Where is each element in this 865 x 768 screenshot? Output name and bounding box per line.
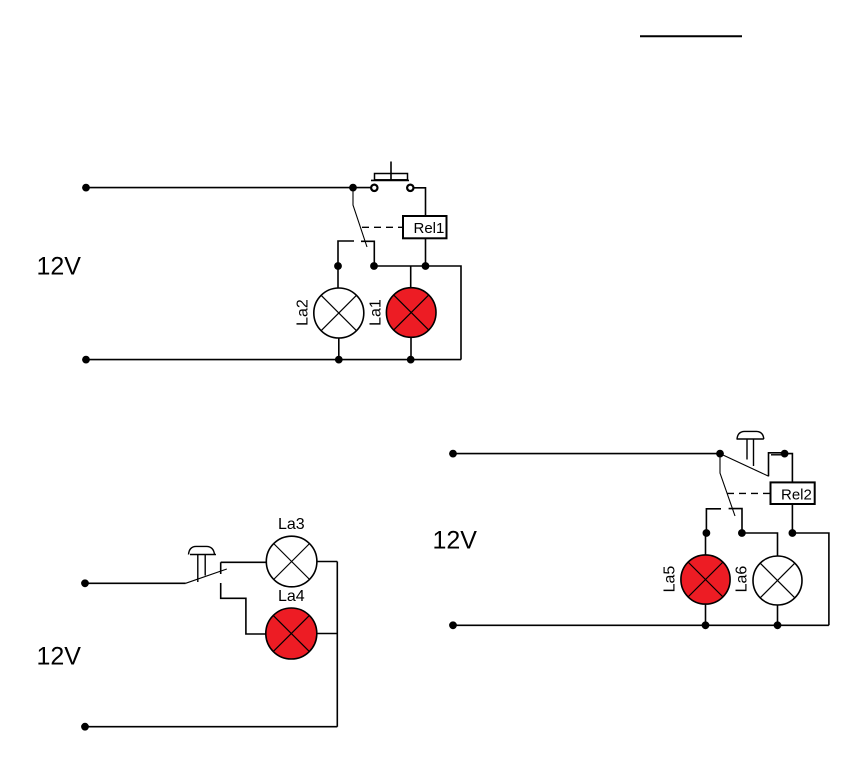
- pushbutton S2 mushroom cap: [189, 546, 217, 582]
- wire: node row to right side (circuit 1): [374, 266, 461, 360]
- wire: La5 bottom lead: [705, 604, 707, 625]
- switch arm (circuit 3): [720, 454, 769, 477]
- wire: right side down (circuit 2): [336, 562, 338, 727]
- wire: La5 top lead: [705, 533, 707, 555]
- wire: from S1 right contact down to Rel1: [414, 188, 426, 216]
- relay contact arm (circuit 1): [353, 189, 367, 247]
- node: left supply terminal dot bottom (circuit 3): [449, 621, 457, 629]
- relay contact arm (circuit 3): [720, 455, 735, 516]
- wire: to Rel2 top: [785, 454, 793, 483]
- wire: short line top right: [640, 35, 742, 37]
- wire: bottom supply rail (circuit 2): [85, 726, 337, 728]
- wire: La6 bottom lead: [777, 605, 779, 625]
- pushbutton S1 cap rectangle: [375, 174, 408, 180]
- junction at switch common (circuit 1): [349, 184, 357, 192]
- wire: staircase to La4: [221, 583, 266, 634]
- junction La5 bottom: [702, 621, 710, 629]
- wire: La3 right lead: [317, 561, 337, 563]
- svg-text:12V: 12V: [433, 527, 478, 555]
- wire: bottom supply rail (circuit 3): [453, 624, 829, 626]
- lamp La3 (white): [266, 536, 317, 587]
- contact: right throw lead (circuit 3): [729, 509, 742, 533]
- junction La2 bottom: [335, 356, 343, 364]
- svg-text:La6: La6: [734, 566, 751, 593]
- contact: right throw lead (circuit 1): [361, 241, 374, 266]
- wire: Rel1 bottom lead: [425, 238, 427, 266]
- lamp La5 (red): [681, 555, 730, 604]
- wire: top supply rail (circuit 3): [453, 453, 720, 455]
- relay coil Rel2 box: [771, 482, 815, 504]
- wire: La4 right lead: [317, 633, 338, 635]
- svg-text:La2: La2: [295, 299, 312, 326]
- contact: left throw bracket (circuit 3): [706, 509, 721, 533]
- wire: bottom supply rail (circuit 1): [86, 359, 461, 361]
- junction above La1 branch: [370, 262, 378, 270]
- wire: to La6 top: [742, 533, 778, 556]
- lamp La4 (red): [266, 608, 317, 659]
- svg-text:12V: 12V: [37, 253, 82, 281]
- wire: La1 top lead: [410, 266, 412, 288]
- svg-text:La3: La3: [278, 516, 305, 533]
- pushbutton S1 left contact circle: [371, 185, 377, 191]
- pushbutton S1 base bar: [371, 179, 409, 181]
- junction below Rel2: [789, 529, 797, 537]
- wire: to La3 (circuit 2): [221, 561, 267, 563]
- contact: left throw bracket (circuit 1): [338, 241, 354, 266]
- lamp La1 (red): [386, 288, 436, 338]
- fixed contact (circuit 3): [769, 453, 785, 477]
- wire: right side down (circuit 3): [792, 533, 829, 625]
- svg-text:Rel2: Rel2: [781, 487, 812, 504]
- fixed contact tick (circuit 2): [220, 562, 222, 574]
- junction above La2: [334, 262, 342, 270]
- junction La6 bottom: [774, 621, 782, 629]
- node: left supply terminal dot top (circuit 2): [81, 579, 89, 587]
- junction below Rel1: [422, 262, 430, 270]
- pushbutton S1 right contact circle: [407, 185, 413, 191]
- junction La1 bottom: [407, 356, 415, 364]
- junction right throw bottom (circuit 3): [738, 529, 746, 537]
- lamp La2 (white): [314, 288, 364, 338]
- svg-text:La1: La1: [368, 299, 385, 326]
- dashed control link Rel1: [362, 226, 403, 228]
- junction at switch common (circuit 3): [716, 450, 724, 458]
- wire: La1 bottom lead: [410, 337, 412, 359]
- wire: top supply rail (circuit 1): [86, 187, 371, 189]
- wire: feed to switch (circuit 2): [85, 582, 186, 584]
- svg-text:Rel1: Rel1: [414, 220, 445, 237]
- wire: La2 top lead: [337, 266, 339, 288]
- node: left supply terminal dot top (circuit 3): [449, 450, 457, 458]
- pushbutton S3 mushroom cap: [737, 431, 764, 466]
- svg-text:12V: 12V: [37, 643, 82, 671]
- node: left supply terminal dot bottom (circuit 1): [82, 356, 90, 364]
- pushbutton S1 actuator stem: [390, 162, 392, 181]
- junction above La5: [703, 529, 711, 537]
- node: left supply terminal dot top (circuit 1): [82, 184, 90, 192]
- dashed control link Rel2: [727, 492, 771, 494]
- lamp La6 (white): [753, 556, 802, 605]
- junction right of switch (circuit 3): [781, 450, 789, 458]
- relay coil Rel1 box: [403, 216, 447, 238]
- node: left supply terminal dot bottom (circuit 2): [81, 723, 89, 731]
- wire: La2 bottom lead: [338, 338, 340, 360]
- svg-text:La4: La4: [278, 588, 305, 605]
- svg-text:La5: La5: [662, 566, 679, 593]
- wire: Rel2 bottom lead: [791, 504, 793, 533]
- switch arm (circuit 2): [186, 569, 227, 583]
